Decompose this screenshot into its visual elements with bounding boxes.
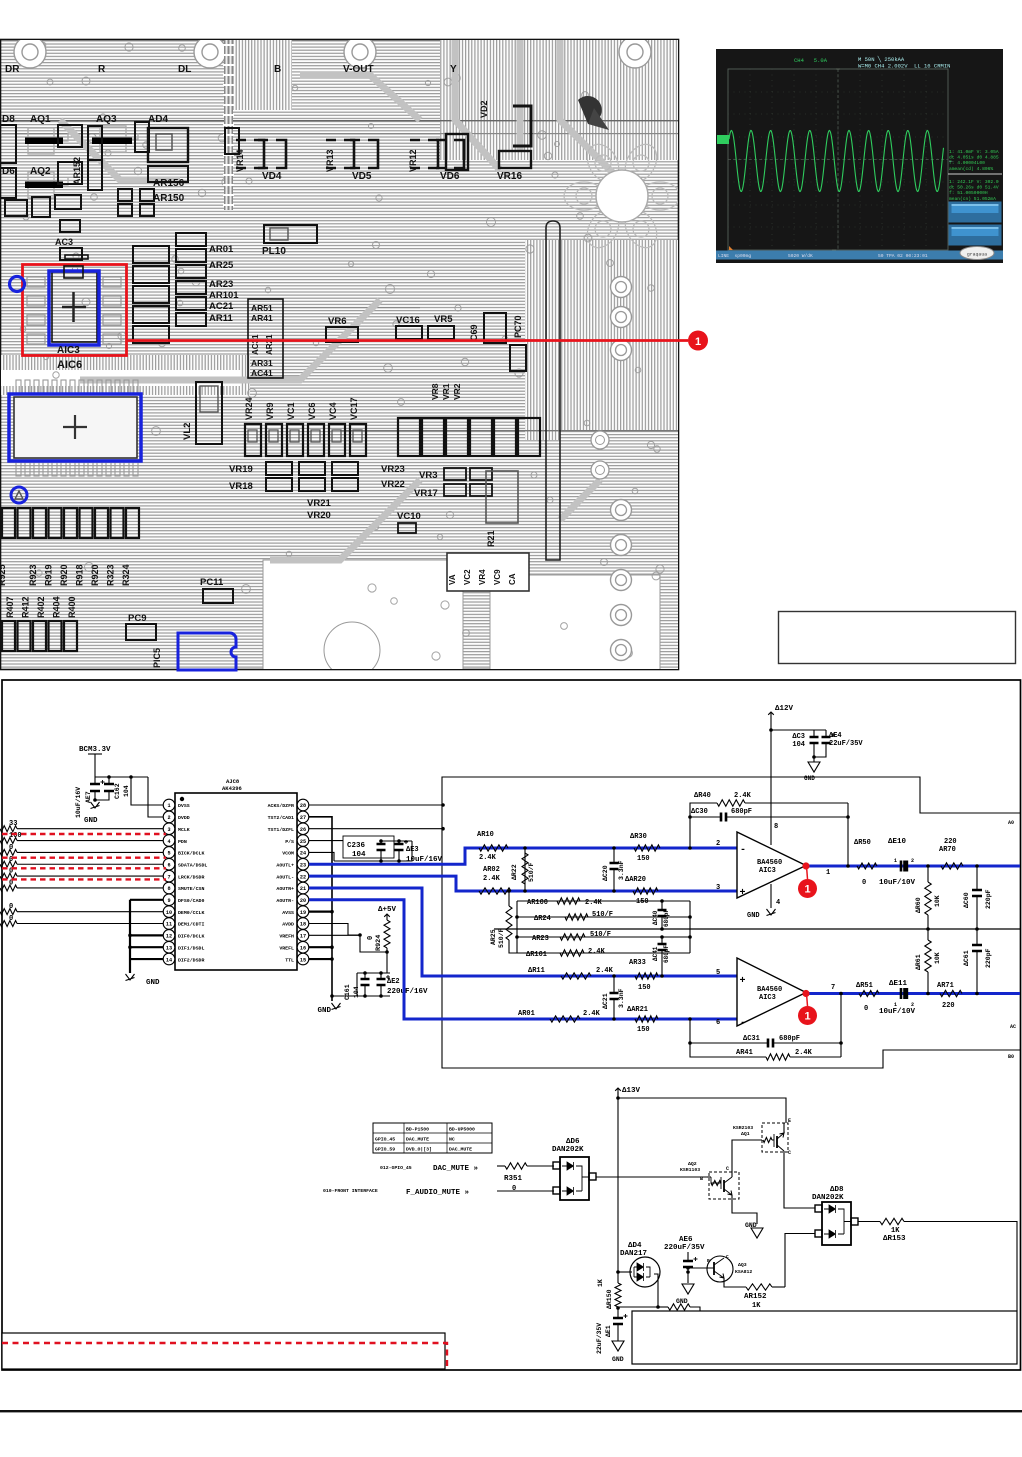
svg-text:22: 22: [300, 874, 306, 880]
blue output wire op-amp2: [806, 992, 1020, 995]
svg-text:R924: R924: [375, 935, 383, 951]
PCB VR19 VR18 VR23 VR22 VR3 VR17 VR21 VR20 VC10: [229, 462, 518, 547]
red dashed highlight lines: [2, 833, 166, 835]
svg-text:BCM3.3V: BCM3.3V: [79, 746, 111, 754]
svg-text:KSR2103: KSR2103: [733, 1125, 753, 1131]
svg-text:ΔQ2: ΔQ2: [688, 1161, 697, 1167]
svg-text:SMUTE/CSN: SMUTE/CSN: [178, 886, 204, 892]
svg-text:AIC3: AIC3: [57, 345, 80, 356]
svg-text:C162: C162: [114, 783, 121, 799]
resistor dR11 2.4K: [561, 973, 591, 979]
svg-text:ΔC3: ΔC3: [792, 733, 805, 741]
wire AD6 to AQ2 base: [596, 1176, 707, 1178]
resistor dR101 2.4K: [517, 952, 690, 954]
svg-text:9: 9: [167, 898, 170, 904]
resistor dR61 10K vertical: [927, 929, 929, 940]
svg-text:10K: 10K: [934, 895, 941, 907]
svg-text:B0: B0: [1008, 1054, 1014, 1060]
svg-text:AR41: AR41: [736, 1049, 753, 1057]
svg-text:R407: R407: [5, 596, 15, 618]
svg-text:14: 14: [166, 957, 172, 963]
input resistor 33 to pin 3: [0, 826, 17, 832]
svg-text:AR25: AR25: [490, 929, 497, 945]
svg-text:1: 1: [804, 1011, 810, 1023]
svg-text:10: 10: [166, 910, 172, 916]
input resistor 0 to pin 7: [0, 873, 17, 879]
svg-text:10uF/10V: 10uF/10V: [879, 1008, 916, 1016]
svg-text:AR10: AR10: [477, 831, 494, 839]
svg-text:DR: DR: [5, 64, 20, 75]
svg-text:19: 19: [300, 910, 306, 916]
resistor AR25 510/F vertical: [508, 891, 510, 906]
svg-text:11: 11: [166, 922, 172, 928]
svg-text:15: 15: [300, 957, 306, 963]
svg-text:1: 1: [826, 869, 830, 877]
svg-text:VC16: VC16: [396, 315, 420, 326]
svg-text:VR20: VR20: [307, 510, 331, 521]
svg-text:220pF: 220pF: [985, 889, 992, 909]
svg-text:AR41: AR41: [251, 313, 273, 323]
svg-text:AOUTR+: AOUTR+: [276, 886, 294, 892]
svg-text:AR01: AR01: [209, 244, 234, 255]
svg-text:R925: R925: [0, 564, 7, 586]
mid ground rail: [494, 928, 1020, 930]
op-amp U1 BA4560 AIC3 (top): [737, 832, 806, 898]
svg-text:2.4K: 2.4K: [795, 1049, 813, 1057]
resistor dR24 510/F: [517, 916, 690, 918]
svg-text:VC17: VC17: [349, 397, 359, 420]
svg-text:GND: GND: [804, 775, 815, 782]
svg-text:W=M0 CH4 2.002V LL 16 CRMIN: W=M0 CH4 2.002V LL 16 CRMIN: [858, 63, 950, 70]
svg-text:VR8: VR8: [430, 383, 440, 400]
svg-text:LINE sp00mg: LINE sp00mg: [718, 253, 751, 259]
svg-text:ΔR101: ΔR101: [526, 951, 547, 959]
svg-text:ΔR153: ΔR153: [883, 1235, 906, 1243]
svg-text:VC10: VC10: [397, 511, 421, 522]
svg-text:DAC_MUTE: DAC_MUTE: [406, 1137, 429, 1143]
svg-text:3.3nF: 3.3nF: [618, 860, 625, 880]
svg-text:ΔR60: ΔR60: [915, 897, 922, 913]
svg-text:2.4K: 2.4K: [583, 1010, 601, 1018]
svg-text:f: 4.00004L00: f: 4.00004L00: [949, 160, 985, 166]
svg-text:R402: R402: [36, 596, 46, 618]
op-amp U2 BA4560 AIC3 (bottom): [737, 958, 806, 1026]
svg-text:ΔR50: ΔR50: [854, 839, 871, 847]
svg-text:ΔR61: ΔR61: [915, 954, 922, 970]
svg-text:VR16: VR16: [497, 171, 522, 182]
svg-text:C69: C69: [469, 324, 479, 341]
svg-text:GPIO_59: GPIO_59: [375, 1147, 395, 1153]
svg-text:VR4: VR4: [478, 569, 487, 585]
wire pin24 VCOM: [309, 852, 334, 861]
svg-text:104: 104: [352, 851, 366, 859]
resistor AR100 2.4K: [517, 900, 690, 902]
svg-text:LRCK/DSDR: LRCK/DSDR: [178, 874, 204, 880]
svg-text:GND: GND: [84, 817, 98, 825]
IC U=AIC8 AK4396 DAC body: [175, 778, 297, 970]
PCB photo montage background: [0, 36, 966, 678]
svg-text:GPIO_45: GPIO_45: [375, 1137, 395, 1143]
power +12V rail: [770, 712, 772, 845]
pin 11 DEM1/CDTI: [163, 918, 175, 930]
svg-text:6: 6: [716, 1019, 720, 1027]
input resistor 0 to pin 10: [0, 909, 17, 915]
svg-text:KSR1103: KSR1103: [680, 1167, 700, 1173]
pin 10 DEM0/CCLK: [163, 906, 175, 918]
transistor AQ3 KSA812: [686, 1254, 752, 1282]
svg-text:VC9: VC9: [493, 569, 502, 585]
svg-text:amean(cd) 4.806%: amean(cd) 4.806%: [949, 166, 993, 172]
svg-text:AC3: AC3: [55, 237, 73, 247]
svg-text:DIF0/DCLK: DIF0/DCLK: [178, 934, 204, 940]
pin 15 TTL: [297, 953, 309, 965]
svg-text:0: 0: [862, 879, 866, 887]
svg-text:PDN: PDN: [178, 839, 187, 845]
svg-text:3: 3: [716, 884, 720, 892]
svg-text:P/S: P/S: [285, 839, 294, 845]
svg-text:Δ13V: Δ13V: [622, 1087, 641, 1095]
svg-text:18: 18: [300, 922, 306, 928]
input resistor 0 to pin 8: [0, 885, 17, 891]
svg-text:ΔC31: ΔC31: [743, 1035, 760, 1043]
svg-text:PIC5: PIC5: [152, 648, 162, 668]
blue highlight wire AOUTL+ pin23: [309, 848, 737, 864]
svg-text:BA4560: BA4560: [757, 986, 782, 994]
ground below AE7: [91, 802, 100, 809]
svg-text:ΔR22: ΔR22: [511, 864, 518, 880]
red marker dots and circles: [802, 862, 809, 869]
svg-text:28: 28: [300, 803, 306, 809]
svg-text:BA4560: BA4560: [757, 859, 782, 867]
ground at analog bus: [332, 1003, 341, 1010]
svg-text:B: B: [274, 64, 281, 75]
svg-text:+: +: [740, 888, 746, 899]
svg-text:AK4396: AK4396: [222, 785, 242, 792]
blue highlight wire AOUTR+ pin21: [309, 888, 737, 976]
PCB VR6 VC16 VR5 C69 PC70: [326, 313, 526, 371]
svg-text:VR21: VR21: [307, 498, 331, 509]
svg-text:680pF: 680pF: [731, 808, 752, 816]
svg-text:0: 0: [512, 1185, 516, 1193]
svg-text:10uF/16V: 10uF/16V: [75, 787, 82, 818]
svg-text:220uF/35V: 220uF/35V: [664, 1244, 705, 1252]
svg-text:R920: R920: [90, 564, 100, 586]
svg-text:DEM0/CCLK: DEM0/CCLK: [178, 910, 204, 916]
diode array AD8 DAN202K: [812, 1186, 858, 1245]
svg-text:150: 150: [636, 898, 649, 906]
pin 5 BICK/DCLK: [163, 847, 175, 859]
svg-text:5: 5: [167, 851, 170, 857]
svg-text:SDATA/DSDL: SDATA/DSDL: [178, 862, 207, 868]
PCB big IC with blue frame (lower left): [9, 380, 141, 503]
svg-text:0: 0: [864, 1005, 868, 1013]
ground for C3/AE4: [812, 755, 816, 759]
svg-text:2: 2: [716, 840, 720, 848]
svg-text:DVD_O|[3]: DVD_O|[3]: [406, 1147, 432, 1153]
svg-text:f: 51.0050000H: f: 51.0050000H: [949, 190, 988, 196]
pin 21 AOUTR+: [297, 882, 309, 894]
svg-text:21: 21: [300, 886, 306, 892]
svg-text:2.4K: 2.4K: [483, 875, 501, 883]
svg-text:ΔE1: ΔE1: [605, 1325, 612, 1337]
PCB silkscreen labels row: DR R DL B V-OUT Y: [5, 64, 457, 75]
capacitor C236 104 (boxed): [343, 836, 394, 858]
wire AQ1 collector down to AD8: [784, 1152, 815, 1208]
capacitor dC61 220pF vertical: [976, 929, 978, 945]
resistor dR50 0: [857, 863, 877, 869]
gnd bus below IC: [129, 900, 131, 973]
svg-text:4: 4: [776, 899, 780, 907]
svg-text:AD4: AD4: [148, 114, 168, 125]
svg-text:R920: R920: [59, 564, 69, 586]
capacitor AE2 220uF/16V: [377, 979, 386, 985]
pin 9 DFS0/CAD0: [163, 894, 175, 906]
svg-text:F_AUDIO_MUTE »: F_AUDIO_MUTE »: [406, 1189, 470, 1197]
svg-text:ΔQ1: ΔQ1: [741, 1131, 750, 1137]
svg-text:680pF: 680pF: [779, 1035, 800, 1043]
annotation box bottom left: [2, 1333, 445, 1369]
svg-text:7: 7: [167, 874, 170, 880]
svg-text:220uF/16V: 220uF/16V: [387, 988, 428, 996]
svg-text:PC70: PC70: [513, 315, 523, 338]
svg-text:Y: Y: [450, 64, 457, 75]
capacitor dC21 3.3nF: [613, 976, 615, 993]
pin 14 DIF2/DSDR: [163, 953, 175, 965]
svg-text:5020 W/dK: 5020 W/dK: [788, 253, 813, 259]
diode array AD6 DAN202K: [552, 1138, 596, 1200]
svg-text:2.4K: 2.4K: [588, 948, 606, 956]
svg-text:510/F: 510/F: [528, 862, 535, 882]
svg-text:22uF/35V: 22uF/35V: [829, 740, 863, 748]
svg-text:150: 150: [637, 1026, 650, 1034]
svg-text:17: 17: [300, 934, 306, 940]
svg-text:1K: 1K: [891, 1227, 900, 1235]
svg-text:23: 23: [300, 862, 306, 868]
svg-text:ΔE10: ΔE10: [888, 838, 907, 846]
svg-text:VR22: VR22: [381, 479, 405, 490]
svg-text:PC9: PC9: [128, 613, 146, 624]
svg-text:TTL: TTL: [285, 957, 294, 963]
svg-text:R919: R919: [44, 564, 54, 586]
svg-text:DL: DL: [178, 64, 191, 75]
svg-text:A0: A0: [1008, 820, 1014, 826]
svg-text:1: 41.0mF V: 3.05A: 1: 41.0mF V: 3.05A: [949, 149, 999, 155]
resistor AR23 510/F: [517, 936, 690, 938]
svg-text:AE7: AE7: [85, 791, 92, 803]
svg-text:DIF1/DSDL: DIF1/DSDL: [178, 945, 204, 951]
svg-text:AJC8: AJC8: [226, 778, 240, 785]
resistor AR01 2.4K: [550, 1016, 580, 1022]
svg-text:ΔR150: ΔR150: [606, 1289, 613, 1309]
svg-text:0: 0: [9, 903, 13, 911]
svg-text:VD6: VD6: [440, 171, 460, 182]
svg-text:104: 104: [353, 986, 360, 998]
svg-text:ΔC41: ΔC41: [652, 946, 659, 961]
pin 8 SMUTE/CSN: [163, 882, 175, 894]
svg-text:AC: AC: [1010, 1024, 1016, 1030]
svg-text:VR2: VR2: [452, 383, 462, 400]
svg-text:R918: R918: [75, 564, 85, 586]
svg-text:0: 0: [367, 936, 375, 940]
svg-text:R923: R923: [28, 564, 38, 586]
svg-text:GND: GND: [612, 1356, 624, 1363]
wire pin 15: [309, 958, 332, 960]
resistor dR51 0: [859, 991, 879, 997]
blue highlight wire AOUTL- pin22: [309, 876, 737, 891]
svg-text:D8: D8: [2, 114, 15, 125]
svg-text:0: 0: [9, 915, 13, 923]
svg-text:AR31: AR31: [251, 358, 273, 368]
wire AD8 lower pin to AQ3: [785, 1234, 815, 1288]
svg-text:AVSS: AVSS: [282, 910, 294, 916]
svg-text:ΔD8: ΔD8: [830, 1186, 844, 1194]
svg-text:ΔR24: ΔR24: [534, 915, 551, 923]
PCB mid cluster AC3 AR01 AR25 AR23 AR101 AC21 AR11 PL10: [55, 225, 317, 343]
pin 13 DIF1/DSDL: [163, 941, 175, 953]
svg-text:AR33: AR33: [629, 959, 646, 967]
oscilloscope screenshot: [716, 49, 1003, 263]
svg-text:C161: C161: [344, 984, 351, 1000]
svg-text:0: 0: [9, 879, 13, 887]
svg-text:VC4: VC4: [328, 402, 338, 420]
svg-text:2.4K: 2.4K: [479, 854, 497, 862]
svg-text:VR6: VR6: [328, 316, 346, 327]
blue highlight wire AOUTR- pin20: [309, 900, 737, 1019]
svg-text:10uF/10V: 10uF/10V: [879, 879, 916, 887]
svg-text:-: -: [740, 845, 746, 856]
resistor AR153 1K: [858, 1221, 880, 1223]
svg-text:680pF: 680pF: [663, 909, 670, 927]
svg-text:CA: CA: [508, 573, 517, 585]
svg-text:20: 20: [300, 898, 306, 904]
capacitor dC20 3.3nF: [613, 848, 615, 863]
svg-text:AR21: AR21: [265, 334, 274, 355]
svg-text:VD5: VD5: [352, 171, 372, 182]
pin 1 DVSS: [163, 799, 175, 811]
svg-text:24: 24: [300, 851, 306, 857]
resistor dAR20 150: [633, 888, 658, 894]
svg-text:R21: R21: [486, 530, 496, 547]
svg-text:BD-UP5000: BD-UP5000: [449, 1127, 475, 1133]
svg-text:C236: C236: [347, 842, 366, 850]
svg-text:2: 2: [167, 815, 170, 821]
svg-text:6: 6: [167, 862, 170, 868]
GPIO mute table: [373, 1123, 492, 1153]
svg-text:VR5: VR5: [434, 314, 453, 325]
PCB diode row VD4 VD5 VD6 VR16 VD2: [235, 100, 531, 182]
pin 20 AOUTR-: [297, 894, 309, 906]
svg-text:16: 16: [300, 945, 306, 951]
svg-text:VR9: VR9: [265, 402, 275, 420]
svg-text:2.4K: 2.4K: [734, 792, 752, 800]
wire pin2 to 3.3V rail: [148, 777, 163, 817]
svg-text:AE6: AE6: [679, 1236, 693, 1244]
svg-text:104: 104: [792, 741, 805, 749]
svg-text:27: 27: [300, 815, 306, 821]
resistor AR33 150: [635, 973, 658, 979]
svg-text:Δ+5V: Δ+5V: [378, 906, 397, 914]
cap AE7 10uF/16V: [95, 776, 148, 778]
blue output wire op-amp1: [806, 865, 1020, 868]
svg-text:2: 2: [911, 858, 914, 864]
svg-text:50 TPA 02 00:23:01: 50 TPA 02 00:23:01: [878, 253, 928, 259]
pin 27 TST2/CAD1: [297, 811, 309, 823]
svg-text:DEM1/CDTI: DEM1/CDTI: [178, 922, 204, 928]
svg-text:680pF: 680pF: [663, 945, 670, 963]
svg-text:VC1: VC1: [286, 402, 296, 420]
svg-text:ΔC61: ΔC61: [963, 950, 970, 966]
svg-text:AOUTL-: AOUTL-: [276, 874, 294, 880]
svg-text:CH4 5.0A: CH4 5.0A: [794, 57, 828, 64]
svg-text:TST1/DZFL: TST1/DZFL: [268, 827, 294, 833]
svg-text:DAC_MUTE: DAC_MUTE: [449, 1147, 472, 1153]
svg-text:ΔC30: ΔC30: [691, 808, 708, 816]
svg-text:220pF: 220pF: [985, 948, 992, 968]
svg-text:R404: R404: [52, 596, 62, 618]
svg-text:+: +: [740, 976, 746, 987]
capacitor AE1 22uF/35V: [613, 1318, 623, 1324]
svg-text:B: B: [700, 1176, 703, 1182]
svg-text:GND: GND: [676, 1298, 688, 1305]
pin 3 MCLK: [163, 823, 175, 835]
svg-text:AR70: AR70: [939, 846, 956, 854]
wire pin1 to 3.3V rail: [131, 777, 163, 805]
svg-text:E: E: [788, 1118, 791, 1124]
svg-text:1: 242.1F V: 302.0: 1: 242.1F V: 302.0: [949, 179, 999, 185]
svg-text:ΔD4: ΔD4: [628, 1242, 642, 1250]
svg-text:R351: R351: [504, 1175, 523, 1183]
svg-text:AIC3: AIC3: [759, 994, 776, 1002]
ground for AQ2 emitter: [732, 1199, 757, 1224]
svg-text:3.3nF: 3.3nF: [618, 988, 625, 1008]
PCB VL2 and VR24..VC17 row: [182, 382, 366, 456]
PCB PC11 PC9 PIC5 and blue outline bottom: [126, 577, 236, 670]
pin 25 P/S: [297, 835, 309, 847]
svg-text:VA: VA: [448, 574, 457, 585]
svg-text:AOUTL+: AOUTL+: [276, 862, 294, 868]
svg-text:1: 1: [167, 803, 170, 809]
svg-text:VR23: VR23: [381, 464, 405, 475]
svg-text:ΔR51: ΔR51: [856, 982, 873, 990]
svg-text:012-GPIO_45: 012-GPIO_45: [380, 1165, 412, 1171]
svg-text:R323: R323: [106, 564, 116, 586]
svg-text:VR18: VR18: [229, 481, 253, 492]
svg-text:KSA812: KSA812: [735, 1269, 752, 1275]
resistor dAR21 150: [635, 1016, 658, 1022]
svg-text:GND: GND: [747, 912, 760, 920]
capacitor dC60 220pF vertical: [976, 866, 978, 890]
svg-text:TST2/CAD1: TST2/CAD1: [268, 815, 294, 821]
schematic outer border: [2, 680, 1021, 1370]
wires pins 28 26 DZF flags to section box: [309, 804, 443, 806]
pin 24 VCOM: [297, 847, 309, 859]
svg-text:-: -: [740, 1018, 746, 1029]
svg-text:ΔC21: ΔC21: [602, 993, 609, 1009]
wire pin25 P/S to C236: [309, 840, 343, 842]
svg-text:DIF2/DSDR: DIF2/DSDR: [178, 957, 204, 963]
svg-text:ΔAR21: ΔAR21: [627, 1006, 648, 1014]
svg-text:1: 1: [695, 336, 701, 348]
svg-text:1K: 1K: [752, 1302, 761, 1310]
svg-text:dt 4.051s d0 4.885: dt 4.051s d0 4.885: [949, 155, 999, 161]
svg-text:R412: R412: [21, 596, 31, 618]
svg-text:VR17: VR17: [414, 488, 438, 499]
svg-text:AC21: AC21: [209, 301, 234, 312]
pin 4 PDN: [163, 835, 175, 847]
vertical ties: [516, 901, 518, 953]
red dashed highlight box bottom left: [2, 1343, 447, 1369]
svg-text:AR23: AR23: [209, 279, 233, 290]
